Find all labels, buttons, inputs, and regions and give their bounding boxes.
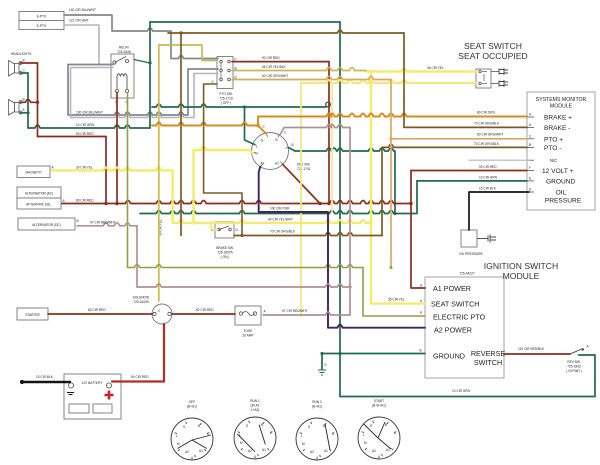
wire 80 CIR RED main row xyxy=(62,201,411,204)
junction headlight ground xyxy=(26,111,29,114)
junction key A1 to main xyxy=(318,202,321,205)
svg-text:725-1657A: 725-1657A xyxy=(217,251,233,255)
wire green main vertical xyxy=(339,22,341,354)
svg-text:B: B xyxy=(276,138,278,142)
svg-text:B: B xyxy=(261,423,263,427)
wire orange row left xyxy=(152,123,258,126)
wire mauve low row xyxy=(137,284,350,287)
svg-text:A2: A2 xyxy=(372,449,376,453)
svg-text:A2 POWER: A2 POWER xyxy=(434,326,472,335)
svg-text:A1 POWER: A1 POWER xyxy=(433,284,471,293)
svg-text:B: B xyxy=(23,59,25,63)
wire 15 CIR BLK battery xyxy=(22,381,70,383)
svg-text:RUN 2: RUN 2 xyxy=(312,400,322,404)
svg-text:10 CIR GRN: 10 CIR GRN xyxy=(76,123,95,127)
svg-text:A1: A1 xyxy=(386,448,390,452)
connector E-PTO 2 xyxy=(19,21,64,30)
wire green headlight vertical xyxy=(27,73,29,128)
svg-text:SEAT OCCUPIED: SEAT OCCUPIED xyxy=(458,51,527,61)
junction yellow seat top xyxy=(369,70,373,74)
svg-text:ALTERNATOR (DC): ALTERNATOR (DC) xyxy=(32,223,61,227)
svg-text:GROUND: GROUND xyxy=(433,352,465,361)
wire 121 CIR WHT (E-PTO2 to relay) xyxy=(64,25,111,65)
svg-text:B: B xyxy=(23,98,25,102)
wire green down leg xyxy=(339,354,341,397)
wire 97 CIR RED/WHT fuse row xyxy=(263,312,350,315)
svg-text:START: START xyxy=(374,399,384,403)
wire N/C xyxy=(469,159,529,161)
wire relay contact to green riser xyxy=(134,60,150,64)
svg-text:S: S xyxy=(370,424,372,428)
brake switch 725-1657A xyxy=(211,222,239,259)
svg-text:S: S xyxy=(420,284,422,288)
svg-text:KEY SW.: KEY SW. xyxy=(297,163,310,167)
battery 12V xyxy=(64,374,121,419)
junction brake row xyxy=(240,234,243,237)
wire headlight2 power stub xyxy=(21,99,38,102)
svg-text:140 CIR BLU/WHT: 140 CIR BLU/WHT xyxy=(69,8,96,12)
junction red pto vertical xyxy=(327,202,330,205)
svg-text:M: M xyxy=(364,441,367,445)
wire 40 CIR YEL/WHT row xyxy=(173,220,371,223)
svg-text:60 CIR ORG/WHT: 60 CIR ORG/WHT xyxy=(262,74,288,78)
svg-text:12 VOLT +: 12 VOLT + xyxy=(542,168,574,175)
solenoid 725-04439 xyxy=(133,296,172,325)
wire 90 CIR RED PTO row xyxy=(232,61,329,63)
junction open circle xyxy=(36,101,39,104)
svg-text:(B+A1): (B+A1) xyxy=(187,405,197,409)
svg-text:70 CIR ORG/BLK: 70 CIR ORG/BLK xyxy=(270,230,296,234)
wire 97 key C mauve stub xyxy=(280,125,350,135)
wire key B stub xyxy=(289,148,296,152)
svg-text:SEAT SWITCH: SEAT SWITCH xyxy=(431,300,479,309)
wire 90 CIR RED monitor stub xyxy=(411,170,527,172)
svg-text:55 CIR YEL/BLK: 55 CIR YEL/BLK xyxy=(262,65,287,69)
svg-text:RUN 1: RUN 1 xyxy=(250,399,260,403)
wire 80 CIR ORG row xyxy=(258,114,527,126)
wire brown riser xyxy=(381,147,383,235)
svg-text:M: M xyxy=(240,441,243,445)
PTO switch 725-1716 xyxy=(212,57,238,106)
junction red module vertical xyxy=(409,202,412,205)
reverse switch 725-1843 xyxy=(566,345,589,374)
svg-text:L: L xyxy=(176,434,178,438)
wire key A2 purple xyxy=(259,167,425,328)
svg-text:(B+A1: (B+A1 xyxy=(251,404,260,408)
svg-text:( ON ): ( ON ) xyxy=(221,255,230,259)
wire green riser xyxy=(149,22,151,128)
svg-text:STARTER: STARTER xyxy=(25,313,40,317)
wire olive to module xyxy=(363,268,425,317)
wire key C stub xyxy=(258,126,266,134)
wire green mid row xyxy=(140,181,417,214)
svg-text:B: B xyxy=(529,143,531,147)
key position RUN 1 xyxy=(234,399,276,459)
junction ground mid xyxy=(338,352,341,355)
junction yellow seat xyxy=(369,221,373,225)
junction green mid xyxy=(393,212,396,215)
svg-text:N/C: N/C xyxy=(550,158,557,163)
svg-text:S: S xyxy=(246,424,248,428)
junction relay D drop xyxy=(115,202,118,205)
svg-text:A2: A2 xyxy=(310,450,314,454)
svg-text:10 CIR GRN: 10 CIR GRN xyxy=(452,389,471,393)
wire 97 CIR RED/WHT alt row xyxy=(77,223,137,226)
wire key B to monitor ground xyxy=(295,148,395,214)
svg-text:30 CIR YEL: 30 CIR YEL xyxy=(76,166,93,170)
svg-text:B: B xyxy=(385,423,387,427)
wire 55 CIR YEL/BLK row xyxy=(232,68,366,71)
wire 35 CIR YEL module row xyxy=(371,302,425,304)
connector E-PTO 1 xyxy=(19,12,64,21)
svg-text:OFF: OFF xyxy=(189,400,195,404)
wire 70 CIR ORG/BLK pto- xyxy=(382,144,527,147)
svg-text:SEAT SWITCH: SEAT SWITCH xyxy=(464,41,522,51)
svg-text:A2: A2 xyxy=(248,449,252,453)
oil pressure switch xyxy=(459,230,496,256)
wire pale vertical x301 xyxy=(300,83,302,316)
wire yellow magneto drop xyxy=(171,170,173,223)
svg-text:80 CIR ORG: 80 CIR ORG xyxy=(477,111,496,115)
svg-text:97 CIR RED/WHT: 97 CIR RED/WHT xyxy=(282,309,308,313)
svg-text:90 CIR RED: 90 CIR RED xyxy=(479,165,497,169)
wire 80 CIR RED starter xyxy=(48,313,152,315)
svg-text:10 CIR GRN: 10 CIR GRN xyxy=(479,176,498,180)
wire olive row xyxy=(128,265,364,268)
svg-text:70 CIR ORG/BLK: 70 CIR ORG/BLK xyxy=(474,122,500,126)
svg-text:MAGNETO: MAGNETO xyxy=(25,171,42,175)
wire red headlight vertical xyxy=(37,63,39,137)
svg-text:SWITCH: SWITCH xyxy=(474,358,502,367)
box STARTER xyxy=(17,308,48,320)
svg-text:F: F xyxy=(529,166,531,170)
svg-text:60 CIR ORG/WHT: 60 CIR ORG/WHT xyxy=(477,133,503,137)
junction relay contact green xyxy=(148,61,151,64)
relay 725-1648 xyxy=(111,46,134,105)
wire tan long vertical (to solenoid) xyxy=(158,45,160,301)
wire brown drop left xyxy=(180,33,182,236)
key position START xyxy=(358,399,400,459)
wire 15 CIR BLK oil xyxy=(469,192,529,230)
junction lorg xyxy=(389,137,392,140)
wire 140 CIR BLU/WHT (E-PTO1 to PTO switch) xyxy=(64,15,218,59)
svg-text:HEADLIGHTS: HEADLIGHTS xyxy=(11,52,31,56)
wire 94 CIR RED battery xyxy=(112,324,164,382)
ignition switch module xyxy=(420,261,559,378)
wire mauve drop xyxy=(136,226,138,287)
svg-text:ELECTRIC PTO: ELECTRIC PTO xyxy=(433,313,486,322)
wire tan top row xyxy=(159,45,217,61)
svg-text:M: M xyxy=(302,442,305,446)
wire to ground symbol xyxy=(321,354,323,370)
svg-text:80 CIR RED: 80 CIR RED xyxy=(76,199,94,203)
wire headlight1 ground stub xyxy=(21,72,29,74)
ground symbol xyxy=(318,370,326,375)
key switch 725-1741 xyxy=(252,125,311,172)
wire red monitor/module vertical xyxy=(411,171,425,289)
wire brown top row xyxy=(168,30,404,33)
svg-text:(B+A1): (B+A1) xyxy=(312,405,322,409)
wire key A1 diagonal xyxy=(283,164,320,203)
svg-text:40 CIR YEL/WHT: 40 CIR YEL/WHT xyxy=(268,218,293,222)
svg-text:OIL PRESSURE: OIL PRESSURE xyxy=(459,252,482,256)
svg-text:725-1741: 725-1741 xyxy=(297,167,311,171)
svg-text:( IN FWD ): ( IN FWD ) xyxy=(566,369,581,373)
svg-text:(B+S+A1): (B+S+A1) xyxy=(372,404,386,408)
junction key L branch xyxy=(243,105,246,108)
connector circle xyxy=(326,102,331,107)
svg-text:B: B xyxy=(292,143,294,147)
svg-text:B: B xyxy=(198,424,200,428)
svg-text:110 CIR RED/BLK: 110 CIR RED/BLK xyxy=(518,347,545,351)
wire 60 CIR ORG/WHT pto row xyxy=(232,77,391,80)
svg-text:A2: A2 xyxy=(261,162,265,166)
svg-text:121 CIR WHT: 121 CIR WHT xyxy=(69,19,89,23)
svg-text:BRAKE -: BRAKE - xyxy=(544,125,570,132)
svg-text:REV SW.: REV SW. xyxy=(567,360,580,364)
junction brake tap xyxy=(209,221,212,224)
svg-text:15 CIR BLK: 15 CIR BLK xyxy=(36,375,54,379)
junction brown top xyxy=(179,31,182,34)
wire 70 CIR ORG/BLK brake- xyxy=(404,126,527,128)
svg-text:AFTERFIRE SOL.: AFTERFIRE SOL. xyxy=(26,203,52,207)
wire 110 CIR RED/BLK xyxy=(504,353,570,355)
box AFTERFIRE SOL. xyxy=(17,198,66,209)
wire key L branch xyxy=(245,107,255,145)
wire brake switch tap xyxy=(211,223,217,230)
svg-text:IGNITION SWITCH: IGNITION SWITCH xyxy=(484,261,558,271)
key position RUN 2 xyxy=(296,400,338,460)
svg-text:M: M xyxy=(177,442,180,446)
wire 35 CIR YEL vertical xyxy=(370,72,372,304)
wire 10 CIR GRN row xyxy=(28,125,150,128)
junction orange xyxy=(256,124,259,127)
svg-text:PTO +: PTO + xyxy=(544,136,563,143)
svg-text:PRESSURE: PRESSURE xyxy=(545,198,582,205)
wire 82 CIR RED solenoid-fuse xyxy=(172,313,235,315)
svg-text:PTO SW.: PTO SW. xyxy=(219,92,232,96)
junction mauve row2 xyxy=(348,285,351,288)
systems monitor module xyxy=(527,92,595,210)
svg-text:97 CIR RED/WHT: 97 CIR RED/WHT xyxy=(90,221,116,225)
wire 10 CIR GRN bottom run xyxy=(340,355,595,397)
svg-text:725-1716: 725-1716 xyxy=(219,97,233,101)
wire lorg vertical xyxy=(390,80,392,268)
svg-text:REVERSE: REVERSE xyxy=(471,349,506,358)
fuse 20 AMP xyxy=(235,306,267,338)
wire red drop a xyxy=(105,137,107,204)
box MAGNETO xyxy=(17,166,55,178)
wire mauve vertical x350 xyxy=(349,128,351,316)
svg-text:15 CIR BLK: 15 CIR BLK xyxy=(479,187,497,191)
svg-text:( OFF ): ( OFF ) xyxy=(221,101,231,105)
wire 70 CIR ORG/BLK brake row xyxy=(234,233,382,236)
wire 30 CIR YEL magneto row xyxy=(52,167,173,170)
svg-text:82 CIR RED: 82 CIR RED xyxy=(196,308,214,312)
svg-text:725-1648: 725-1648 xyxy=(117,50,131,54)
junction ground left xyxy=(320,352,323,355)
svg-text:90 CIR RED: 90 CIR RED xyxy=(76,132,94,136)
headlight 1 xyxy=(9,59,26,77)
wire headlight1 power stub xyxy=(21,62,38,64)
svg-text:A1: A1 xyxy=(324,449,328,453)
svg-text:OIL: OIL xyxy=(556,190,567,197)
wire gray pair lower (relay to PTO) xyxy=(71,68,219,118)
svg-text:B: B xyxy=(77,219,79,223)
wire 10 CIR GRN to monitor xyxy=(417,180,527,182)
box ALTERNATOR (DC) xyxy=(18,218,79,230)
svg-text:80 CIR RED: 80 CIR RED xyxy=(88,308,106,312)
svg-text:S: S xyxy=(308,425,310,429)
svg-text:SOLENOID: SOLENOID xyxy=(133,296,150,300)
svg-text:A2: A2 xyxy=(185,450,189,454)
svg-text:FUSE: FUSE xyxy=(244,329,253,333)
svg-text:130 CIR BLU/WHT: 130 CIR BLU/WHT xyxy=(76,111,103,115)
svg-text:SYSTEMS MONITOR: SYSTEMS MONITOR xyxy=(536,97,587,103)
svg-text:A1: A1 xyxy=(262,448,266,452)
svg-text:35 CIR YEL: 35 CIR YEL xyxy=(388,298,405,302)
svg-text:ALTERNATOR (AC): ALTERNATOR (AC) xyxy=(25,192,53,196)
junction olive lorg xyxy=(390,266,393,269)
svg-text:725-1843: 725-1843 xyxy=(567,365,581,369)
junction yellow M riser xyxy=(192,221,196,225)
terminal black xyxy=(20,380,24,384)
svg-text:GROUND: GROUND xyxy=(546,179,576,186)
svg-text:A1: A1 xyxy=(275,162,279,166)
svg-text:12V BATTERY: 12V BATTERY xyxy=(82,381,104,385)
wire headlight2 ground stub xyxy=(21,112,29,114)
svg-text:S: S xyxy=(183,425,185,429)
svg-text:E-PTO: E-PTO xyxy=(37,15,47,19)
wire 60 CIR ORG/WHT monitor xyxy=(391,138,527,140)
wire relay D drop xyxy=(116,93,118,204)
wire PTO C drop xyxy=(204,84,242,236)
key position OFF xyxy=(171,400,213,460)
svg-text:725-04227: 725-04227 xyxy=(459,272,474,276)
svg-text:BRAKE SW.: BRAKE SW. xyxy=(216,246,234,250)
wire 90 CIR RED left row xyxy=(38,136,107,138)
svg-text:70 CIR ORG/BLK: 70 CIR ORG/BLK xyxy=(474,142,500,146)
seat switch xyxy=(476,68,508,88)
svg-text:L: L xyxy=(363,433,365,437)
svg-text:E: E xyxy=(325,363,327,367)
svg-text:E: E xyxy=(529,177,531,181)
headlight 2 xyxy=(9,98,26,116)
svg-text:35 CIR YEL: 35 CIR YEL xyxy=(427,66,444,70)
wire teal to key L xyxy=(152,104,326,107)
svg-text:725-04439: 725-04439 xyxy=(133,300,148,304)
junction red drop a xyxy=(104,202,107,205)
wire gray pair upper (relay to PTO) xyxy=(68,65,218,116)
svg-text:E-PTO: E-PTO xyxy=(37,24,47,28)
wire green top run xyxy=(150,21,340,23)
wire relay C olive drop xyxy=(127,93,129,268)
svg-text:20 AMP: 20 AMP xyxy=(242,334,253,338)
wire 35 CIR YEL seat top xyxy=(366,69,476,72)
svg-text:M: M xyxy=(255,152,258,156)
svg-text:S: S xyxy=(261,139,263,143)
svg-text:A1: A1 xyxy=(199,449,203,453)
wire ground bus xyxy=(322,353,425,355)
box ALTERNATOR (AC) xyxy=(17,187,61,198)
wire yellow key M row xyxy=(194,147,253,223)
svg-text:L+A2): L+A2) xyxy=(251,408,260,412)
svg-text:MODULE: MODULE xyxy=(503,271,540,281)
svg-text:PTO -: PTO - xyxy=(544,145,561,152)
svg-text:MODULE: MODULE xyxy=(550,104,573,110)
wire red PTO vertical xyxy=(328,62,330,204)
wire pale vertical xyxy=(331,83,333,211)
wire brown drop right xyxy=(403,33,405,127)
svg-text:L: L xyxy=(301,434,303,438)
svg-text:100 CIR PUR: 100 CIR PUR xyxy=(270,207,290,211)
svg-text:90 CIR RED: 90 CIR RED xyxy=(262,56,280,60)
svg-text:BRAKE +: BRAKE + xyxy=(544,115,572,122)
wire seat switch lower xyxy=(301,80,476,83)
svg-text:B: B xyxy=(420,349,422,353)
svg-text:94 CIR RED: 94 CIR RED xyxy=(131,375,149,379)
